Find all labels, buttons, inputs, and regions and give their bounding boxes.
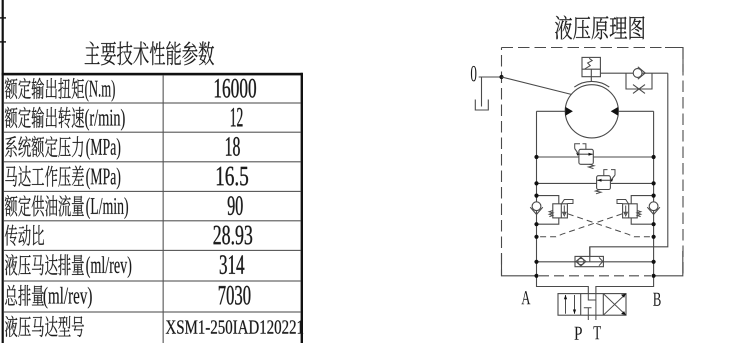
port labels A B P T xyxy=(521,291,660,340)
row 1 value: 16000 xyxy=(215,79,221,97)
directional control valve DV1 body xyxy=(558,294,626,316)
table title 主要技术性能参数 xyxy=(85,41,214,65)
wire: shuttle valve line xyxy=(537,261,654,263)
row 8 name: 总排量(ml/rev) xyxy=(5,285,17,305)
row 6 name: 传动比 xyxy=(5,225,17,246)
check valve on left bus (CB1 bypass, ball in V seat) xyxy=(532,202,541,211)
table body text xyxy=(5,78,303,337)
row 3 value: 18 xyxy=(226,137,232,155)
counterbalance valve CB2 (right) xyxy=(617,196,654,225)
hydraulic motor M1 (circle) xyxy=(565,85,618,138)
throttle-check valve frame xyxy=(626,73,652,89)
row 3 name: 系统额定压力(MPa) xyxy=(5,136,16,157)
DV1 right position crossed arrows xyxy=(603,294,626,316)
wire: left bus A xyxy=(537,111,589,293)
counterbalance valve CB1 (left) xyxy=(537,196,574,225)
table: left outer border xyxy=(2,0,4,343)
label P xyxy=(574,327,581,340)
label T xyxy=(593,326,601,339)
brake release cylinder (spring box) xyxy=(582,57,600,76)
node 0: drain line from enclosure xyxy=(479,76,502,78)
motor flow triangles xyxy=(565,107,618,116)
junction dot at enclosure drain port xyxy=(499,75,503,79)
row 4 name: 马达工作压差(MPa) xyxy=(5,166,17,187)
row 9 value: XSM1-250IAD120221 xyxy=(166,320,176,333)
row 8 value: 7030 xyxy=(219,286,226,304)
shuttle valve SV1 xyxy=(575,247,603,267)
dashed enclosure box (valve block boundary) xyxy=(502,48,684,276)
wire: pilot line right side down to shuttle xyxy=(590,73,668,257)
table: top outer border xyxy=(2,73,303,76)
table: right outer border xyxy=(301,73,303,343)
table: row lines xyxy=(4,102,301,103)
wire: motor left port xyxy=(537,110,566,112)
pilot drain dashed line at bottom xyxy=(539,275,651,277)
row 7 value: 314 xyxy=(220,255,227,274)
brake arc over motor xyxy=(574,81,609,87)
relief valve RV1 xyxy=(575,144,594,169)
pilot line (dashed) CB2 to left bus xyxy=(539,214,623,237)
row 7 name: 液压马达排量(ml/rev) xyxy=(5,254,17,275)
row 2 name: 额定输出转速(r/min) xyxy=(5,107,18,128)
DV1 left position arrows xyxy=(566,295,575,314)
row 2 value: 12 xyxy=(231,108,236,126)
row 4 value: 16.5 xyxy=(217,167,224,185)
pilot line (dashed) CB1 to right bus xyxy=(568,214,652,237)
orifice/throttle X xyxy=(633,85,645,94)
table: column divider xyxy=(163,75,164,343)
wire: brake valve to throttle-check xyxy=(601,72,668,74)
wire: case drain diagonal to motor xyxy=(502,77,572,95)
label A xyxy=(521,291,530,304)
wire: motor right port xyxy=(618,110,653,112)
row 6 value: 28.93 xyxy=(214,226,221,245)
wire: crossover relief line 2 xyxy=(537,182,654,184)
wire: right bus B xyxy=(596,111,654,293)
enclosure solid corner segments xyxy=(502,48,684,276)
drain tank symbol xyxy=(475,77,488,110)
label 0 xyxy=(471,66,477,82)
schematic title 液压原理图 xyxy=(555,16,644,40)
row 1 name: 额定输出扭矩(N.m) xyxy=(5,78,18,99)
check valve on right bus (CB2 bypass, ball in V seat) xyxy=(649,202,658,211)
junction dots on buses xyxy=(534,155,538,159)
row 5 value: 90 xyxy=(228,196,235,215)
label B xyxy=(653,293,661,306)
row 9 name: 液压马达型号 xyxy=(5,316,17,337)
table: tick marks on left border xyxy=(0,17,6,18)
relief valve RV2 xyxy=(596,170,616,194)
DV1 centre position (A,B to T; P blocked) xyxy=(584,294,596,320)
check valve C1 (ball in V seat) xyxy=(633,69,642,78)
wire: crossover relief line 1 xyxy=(537,156,654,158)
row 5 name: 额定供油流量(L/min) xyxy=(5,195,18,216)
